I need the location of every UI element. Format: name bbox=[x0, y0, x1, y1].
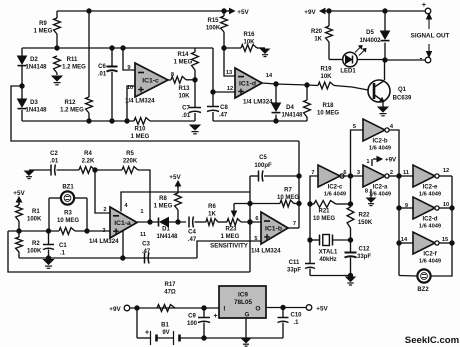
svg-text:+: + bbox=[145, 330, 149, 337]
svg-text:1/4 LM324: 1/4 LM324 bbox=[251, 248, 281, 255]
svg-text:R7: R7 bbox=[284, 188, 292, 194]
svg-text:100pF: 100pF bbox=[254, 163, 272, 169]
svg-text:C6: C6 bbox=[98, 64, 106, 70]
svg-text:14: 14 bbox=[266, 73, 273, 79]
svg-text:.01: .01 bbox=[50, 159, 59, 165]
svg-text:C1: C1 bbox=[59, 243, 67, 249]
svg-text:1 MEG: 1 MEG bbox=[131, 134, 150, 140]
svg-text:6: 6 bbox=[343, 170, 346, 176]
svg-text:1/6 4049: 1/6 4049 bbox=[419, 259, 441, 265]
svg-text:1N4002: 1N4002 bbox=[359, 38, 381, 44]
svg-text:100K: 100K bbox=[27, 249, 42, 255]
svg-text:IC2-e: IC2-e bbox=[423, 185, 438, 191]
svg-text:+9V: +9V bbox=[304, 9, 316, 16]
svg-text:C11: C11 bbox=[289, 260, 300, 266]
svg-text:C4: C4 bbox=[188, 230, 196, 236]
svg-text:78L05: 78L05 bbox=[234, 299, 253, 306]
svg-text:C3: C3 bbox=[142, 242, 150, 248]
svg-text:1 MEG: 1 MEG bbox=[34, 29, 53, 35]
svg-text:O: O bbox=[255, 306, 260, 313]
svg-text:.47: .47 bbox=[219, 113, 228, 119]
svg-text:1/4 LM324: 1/4 LM324 bbox=[125, 98, 155, 105]
svg-text:+9V: +9V bbox=[109, 306, 121, 313]
svg-text:XTAL1: XTAL1 bbox=[319, 250, 338, 256]
svg-text:R23: R23 bbox=[225, 227, 237, 233]
svg-text:1: 1 bbox=[140, 209, 143, 215]
svg-text:D1: D1 bbox=[162, 227, 170, 233]
svg-text:12: 12 bbox=[443, 168, 449, 174]
svg-text:10: 10 bbox=[127, 85, 133, 91]
svg-text:1/6 4049: 1/6 4049 bbox=[369, 192, 391, 198]
svg-text:C8: C8 bbox=[220, 105, 228, 111]
svg-text:.1: .1 bbox=[293, 320, 299, 326]
svg-text:R20: R20 bbox=[311, 29, 323, 35]
svg-text:G: G bbox=[245, 313, 250, 319]
svg-text:+9V: +9V bbox=[385, 157, 397, 164]
svg-text:I: I bbox=[224, 306, 226, 313]
svg-text:C5: C5 bbox=[259, 155, 267, 161]
svg-text:IC1-b: IC1-b bbox=[265, 226, 282, 233]
svg-text:15: 15 bbox=[442, 237, 448, 243]
svg-text:R16: R16 bbox=[243, 32, 255, 38]
svg-text:2: 2 bbox=[390, 170, 393, 176]
svg-text:IC1-c: IC1-c bbox=[142, 78, 159, 85]
svg-text:R17: R17 bbox=[164, 282, 176, 288]
svg-text:IC9: IC9 bbox=[238, 292, 248, 299]
svg-text:Q1: Q1 bbox=[398, 87, 407, 93]
svg-text:14: 14 bbox=[401, 237, 408, 243]
svg-text:IC2-c: IC2-c bbox=[328, 185, 343, 191]
svg-text:C10: C10 bbox=[290, 313, 302, 319]
svg-text:1K: 1K bbox=[208, 212, 216, 218]
svg-text:+: + bbox=[422, 0, 427, 9]
svg-text:+: + bbox=[214, 313, 218, 320]
svg-text:R11: R11 bbox=[67, 57, 78, 63]
svg-text:IC1-d: IC1-d bbox=[239, 81, 256, 88]
svg-text:+5V: +5V bbox=[13, 190, 25, 197]
svg-text:1N4148: 1N4148 bbox=[25, 65, 47, 71]
svg-text:10K: 10K bbox=[320, 74, 332, 80]
svg-text:C2: C2 bbox=[50, 151, 58, 157]
svg-text:7: 7 bbox=[293, 221, 296, 227]
svg-text:.1: .1 bbox=[60, 251, 66, 257]
svg-text:R22: R22 bbox=[358, 213, 370, 219]
svg-text:100: 100 bbox=[187, 321, 198, 327]
svg-text:C9: C9 bbox=[188, 314, 196, 320]
svg-text:IC1-a: IC1-a bbox=[114, 220, 131, 227]
svg-text:2.2K: 2.2K bbox=[82, 159, 95, 165]
svg-text:R15: R15 bbox=[207, 18, 219, 24]
svg-text:C12: C12 bbox=[358, 247, 370, 253]
svg-text:1.2 MEG: 1.2 MEG bbox=[62, 65, 86, 71]
svg-text:2: 2 bbox=[103, 207, 106, 213]
svg-text:6: 6 bbox=[255, 216, 258, 222]
svg-text:D5: D5 bbox=[366, 30, 374, 36]
svg-text:-: - bbox=[420, 54, 423, 63]
svg-text:10K: 10K bbox=[243, 40, 255, 46]
svg-text:10 MEG: 10 MEG bbox=[317, 111, 339, 117]
svg-text:10: 10 bbox=[443, 202, 449, 208]
svg-text:33pF: 33pF bbox=[287, 268, 301, 274]
svg-text:220K: 220K bbox=[123, 159, 138, 165]
svg-text:SeekIC.com: SeekIC.com bbox=[405, 335, 459, 346]
svg-text:1N4148: 1N4148 bbox=[25, 108, 47, 114]
svg-text:+5V: +5V bbox=[237, 9, 249, 16]
svg-text:1/6 4049: 1/6 4049 bbox=[369, 146, 391, 152]
svg-text:33pF: 33pF bbox=[357, 254, 371, 260]
svg-text:D3: D3 bbox=[30, 100, 38, 106]
svg-text:1/4 LM324: 1/4 LM324 bbox=[89, 238, 119, 245]
svg-text:R14: R14 bbox=[177, 52, 189, 58]
svg-text:R5: R5 bbox=[126, 151, 134, 157]
svg-text:8: 8 bbox=[365, 189, 368, 195]
svg-text:9: 9 bbox=[127, 65, 130, 71]
svg-text:.01: .01 bbox=[98, 72, 107, 78]
svg-text:1N4148: 1N4148 bbox=[156, 234, 178, 240]
svg-text:D2: D2 bbox=[30, 57, 38, 63]
svg-text:11: 11 bbox=[140, 232, 146, 238]
svg-text:B1: B1 bbox=[161, 323, 169, 329]
svg-text:R18: R18 bbox=[322, 103, 334, 109]
svg-text:+5V: +5V bbox=[169, 174, 181, 181]
svg-text:.01: .01 bbox=[182, 113, 191, 119]
svg-text:1/4 LM324: 1/4 LM324 bbox=[243, 99, 273, 106]
svg-text:12: 12 bbox=[227, 86, 233, 92]
svg-text:1: 1 bbox=[366, 159, 369, 165]
svg-text:10 MEG: 10 MEG bbox=[57, 218, 79, 224]
svg-text:1N4148: 1N4148 bbox=[281, 113, 303, 119]
svg-text:10 MEG: 10 MEG bbox=[277, 195, 299, 201]
svg-text:1/6 4049: 1/6 4049 bbox=[419, 224, 441, 230]
svg-text:R13: R13 bbox=[178, 86, 190, 92]
svg-text:BZ2: BZ2 bbox=[417, 287, 429, 293]
svg-text:8: 8 bbox=[171, 72, 174, 78]
svg-text:R12: R12 bbox=[64, 100, 76, 106]
svg-text:.47: .47 bbox=[142, 249, 151, 255]
svg-text:47Ω: 47Ω bbox=[164, 290, 176, 296]
svg-text:IC2-f: IC2-f bbox=[423, 252, 437, 258]
svg-text:150K: 150K bbox=[358, 220, 373, 226]
svg-text:1.2 MEG: 1.2 MEG bbox=[60, 108, 84, 114]
svg-text:R2: R2 bbox=[32, 241, 40, 247]
svg-text:5: 5 bbox=[254, 236, 257, 242]
svg-text:10K: 10K bbox=[178, 94, 190, 100]
svg-text:.47: .47 bbox=[188, 237, 197, 243]
svg-text:100K: 100K bbox=[27, 217, 42, 223]
svg-text:BZ1: BZ1 bbox=[62, 185, 74, 191]
svg-text:R10: R10 bbox=[134, 127, 146, 133]
svg-text:+5V: +5V bbox=[316, 306, 328, 313]
svg-text:13: 13 bbox=[226, 70, 232, 76]
svg-text:9V: 9V bbox=[162, 330, 169, 336]
svg-text:LED1: LED1 bbox=[340, 69, 356, 75]
svg-text:10 MEG: 10 MEG bbox=[313, 216, 335, 222]
svg-text:R8: R8 bbox=[159, 196, 167, 202]
svg-text:3: 3 bbox=[357, 170, 360, 176]
svg-text:R21: R21 bbox=[318, 209, 330, 215]
svg-text:R4: R4 bbox=[84, 151, 92, 157]
svg-text:R19: R19 bbox=[320, 67, 332, 73]
svg-text:R9: R9 bbox=[39, 21, 47, 27]
svg-text:SENSITIVITY: SENSITIVITY bbox=[210, 243, 249, 250]
svg-text:IC2-a: IC2-a bbox=[373, 185, 388, 191]
svg-text:SIGNAL OUT: SIGNAL OUT bbox=[411, 33, 450, 40]
svg-text:1/6 4049: 1/6 4049 bbox=[419, 192, 441, 198]
svg-text:D4: D4 bbox=[286, 105, 294, 111]
svg-text:IC2-b: IC2-b bbox=[373, 139, 388, 145]
svg-text:100K: 100K bbox=[206, 26, 221, 32]
svg-text:C7: C7 bbox=[182, 106, 190, 112]
svg-text:11: 11 bbox=[403, 170, 409, 176]
svg-text:1 MEG: 1 MEG bbox=[154, 204, 173, 210]
svg-text:1K: 1K bbox=[314, 37, 322, 43]
svg-text:5: 5 bbox=[353, 124, 356, 130]
svg-text:BC639: BC639 bbox=[393, 96, 412, 102]
svg-text:7: 7 bbox=[311, 170, 314, 176]
svg-text:R3: R3 bbox=[64, 211, 72, 217]
svg-text:1/6 4049: 1/6 4049 bbox=[324, 192, 346, 198]
svg-text:R1: R1 bbox=[32, 209, 40, 215]
svg-text:IC2-d: IC2-d bbox=[423, 217, 438, 223]
svg-text:1 MEG: 1 MEG bbox=[221, 234, 240, 240]
svg-text:40kHz: 40kHz bbox=[319, 257, 336, 263]
svg-text:1 MEG: 1 MEG bbox=[174, 60, 193, 66]
svg-text:R6: R6 bbox=[208, 204, 216, 210]
